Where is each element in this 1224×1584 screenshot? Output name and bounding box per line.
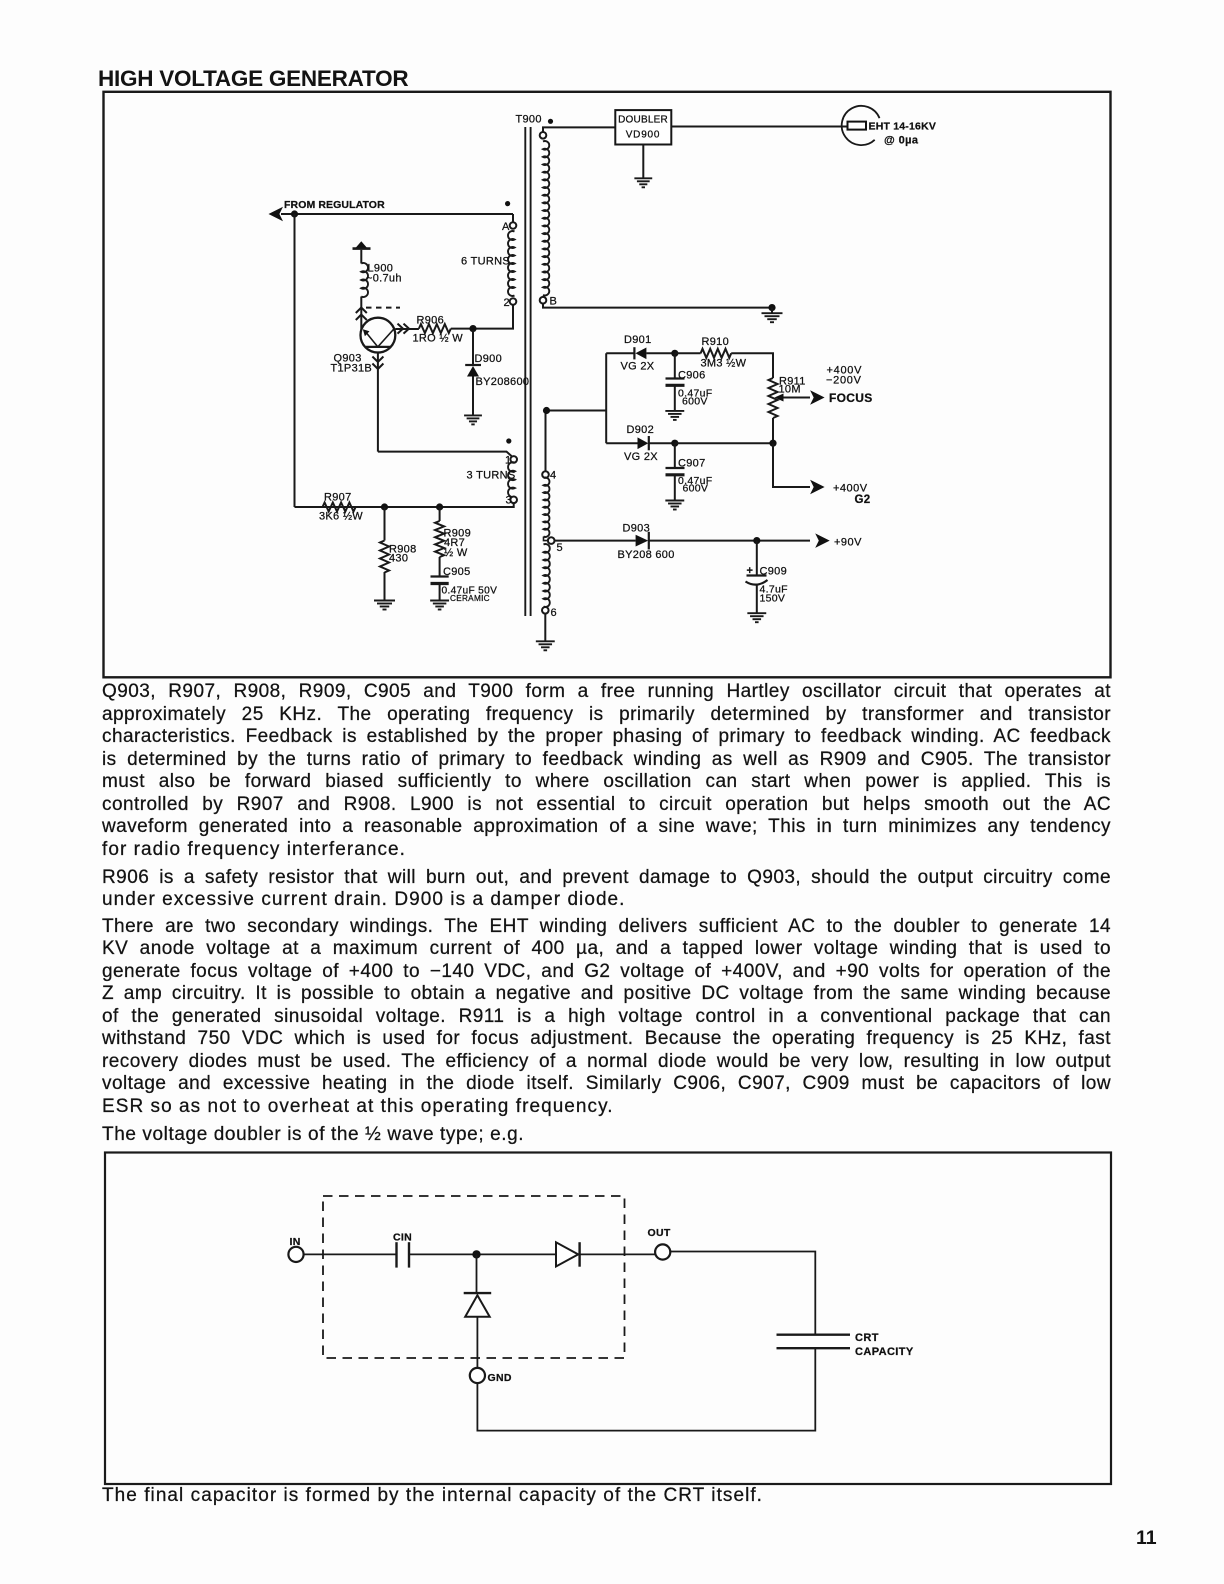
dashed module outline [323,1196,625,1358]
svg-text:D900: D900 [475,353,503,365]
svg-text:C909: C909 [760,566,788,578]
svg-text:VD900: VD900 [626,130,661,141]
wire doubler to EHT terminal [671,126,848,128]
junction dot tap4 rail [543,407,550,414]
transformer T900 core [524,127,526,616]
feedback chevrons up [356,308,367,314]
diode D901 [633,347,635,359]
potentiometer R911 [769,378,778,418]
svg-text:+90V: +90V [834,537,862,549]
svg-text:T900: T900 [516,114,542,126]
wire diode to OUT [580,1253,656,1255]
svg-text:CAPACITY: CAPACITY [855,1346,914,1358]
inductor L900 [361,263,368,297]
svg-text:3 TURNS: 3 TURNS [467,470,516,482]
wire D902 node to R911 bottom [675,442,773,444]
lower secondary winding upper half [544,478,550,537]
ground below doubler [642,145,644,179]
capacitor CIN [395,1242,397,1267]
wire D901 node to R910 [675,352,701,354]
svg-text:+400V: +400V [833,483,868,495]
wire T900 top to doubler [543,127,615,132]
svg-text:DOUBLER: DOUBLER [618,114,668,125]
capacitor C905 [431,575,449,577]
EHT secondary winding [540,132,547,139]
svg-text:½ W: ½ W [444,547,468,559]
capacitor C909 electrolytic [756,541,758,575]
svg-text:430: 430 [389,553,408,565]
ground below terminal 6 [536,640,555,642]
junction dot D901-C906 [671,350,678,357]
wire to D902 [606,442,637,444]
terminal GND [470,1368,485,1383]
terminal A [510,222,517,229]
wire D903 to +90V [649,540,810,542]
junction dot regulator [291,210,298,217]
junction dot D902-C907 [671,440,678,447]
lower secondary winding lower half [544,544,550,607]
resistor R908 [384,507,386,541]
emitter wire down [377,353,379,452]
ground below D900 [464,414,482,416]
junction dot C909 [753,537,760,544]
terminal 4 [542,471,549,478]
svg-text:CRT: CRT [855,1332,879,1344]
capacitor C907 [674,443,676,468]
transistor Q903 [361,318,396,353]
svg-text:150V: 150V [760,593,786,605]
wire regulator rail [281,213,513,215]
junction dot R909 [436,503,443,510]
diode rail vertical [605,353,607,443]
resistor R909 [439,507,441,521]
svg-text:6 TURNS: 6 TURNS [461,256,510,268]
svg-text:C906: C906 [678,370,706,382]
wire chassis to L900 [360,250,362,264]
svg-text:VG 2X: VG 2X [624,451,658,463]
polarity dot EHT winding [548,119,553,124]
junction dot R906-D900 [469,325,476,332]
svg-text:D902: D902 [627,424,655,436]
svg-text:GND: GND [488,1372,512,1384]
resistor R906 [419,324,451,333]
capacitor C906 [674,353,676,378]
svg-text:BY208600: BY208600 [476,376,530,388]
svg-text:FROM REGULATOR: FROM REGULATOR [284,199,385,211]
capacitor CRT capacity [777,1333,851,1335]
diode D903 [636,535,649,547]
polarity dot above A [505,201,510,206]
wire terminal 4 to diode rail [546,411,607,472]
svg-text:5: 5 [557,542,563,554]
wire CIN to node [409,1253,556,1255]
collector wire to R906 [395,328,419,330]
svg-text:600V: 600V [682,396,708,408]
terminal OUT [655,1244,670,1259]
terminal 5 [544,537,549,541]
terminal B [540,297,547,304]
svg-text:6: 6 [551,607,557,619]
svg-text:A: A [502,221,510,233]
svg-text:600V: 600V [683,483,709,495]
wire terminal B to ground [543,304,772,308]
series diode [556,1242,578,1266]
emitter chevrons down [372,357,383,363]
svg-text:BY208 600: BY208 600 [618,549,675,561]
svg-text:1RO ½ W: 1RO ½ W [413,333,464,345]
wire emitter to terminal 1 [378,452,512,457]
svg-text:R906: R906 [417,315,445,327]
schematic frame (high voltage generator) [104,92,1111,678]
ground below C906 [665,410,684,412]
arrow from regulator [269,207,284,222]
svg-text:FOCUS: FOCUS [829,391,873,405]
svg-text:OUT: OUT [648,1227,671,1239]
wire R910 to R911 [731,353,773,378]
feedback winding 3 turns [508,462,515,497]
svg-text:@ 0µa: @ 0µa [884,135,919,147]
wire IN to CIN [304,1253,397,1255]
wire rail to terminal A [512,214,514,222]
svg-text:~0.7uh: ~0.7uh [366,273,402,285]
wire shunt diode to GND [476,1317,478,1368]
wire regulator down to R907 [294,214,296,507]
svg-text:C907: C907 [678,458,706,470]
svg-text:R910: R910 [702,336,730,348]
svg-text:2: 2 [504,297,510,309]
arrow +90V output [815,533,830,548]
svg-text:3M3 ½W: 3M3 ½W [701,358,747,370]
svg-text:4: 4 [550,470,556,482]
dashed adjust line [366,307,400,309]
wire terminal 6 to ground [544,614,546,642]
ground below C907 [665,500,684,502]
wire terminal 3 to R907 rail [295,503,514,507]
svg-text:3: 3 [506,495,512,507]
wiper arrow FOCUS [775,394,784,402]
wire OUT to CRT capacitor [670,1252,815,1335]
junction dot R908 [381,503,388,510]
resistor R910 [701,349,732,358]
terminal IN [288,1247,303,1262]
svg-text:VG 2X: VG 2X [621,361,655,373]
ground below C909 [747,612,766,614]
svg-text:−200V: −200V [826,375,862,387]
svg-text:G2: G2 [855,494,871,506]
svg-text:D903: D903 [623,523,651,535]
wire L900 to transistor [360,297,362,331]
junction dot doubler [472,1250,480,1258]
junction dot R911 bottom [769,440,776,447]
wire GND return [477,1349,815,1431]
svg-text:10M: 10M [779,384,801,396]
wire terminal 2 to R906 node [479,305,513,329]
polarity dot above 1 [506,438,511,443]
ground below C905 [430,600,449,602]
arrow G2 output [810,480,825,495]
wire to D901 [606,352,634,354]
svg-text:R907: R907 [324,492,352,504]
wire R906 to node [451,328,479,330]
ground at B wire [771,308,773,314]
svg-text:C905: C905 [443,566,471,578]
EHT output terminal [842,106,880,145]
chassis symbol above L900 [353,247,371,250]
terminal 3 [510,497,517,504]
resistor R907 [323,503,356,512]
collector chevrons right [398,324,404,334]
svg-text:EHT 14-16KV: EHT 14-16KV [869,121,937,133]
diode D902 [638,437,649,449]
doubler VD900 box [615,110,671,144]
svg-text:IN: IN [290,1236,301,1248]
wire to G2 output [773,443,810,487]
ground below R908 [374,600,395,602]
terminal 1 [510,456,517,463]
primary winding 6 turns [508,231,514,296]
junction dot B-ground [768,304,775,311]
wire terminal 5 to D903 [555,540,636,542]
svg-text:+: + [747,565,754,577]
diode D900 [472,330,474,365]
svg-text:B: B [550,296,558,308]
svg-text:D901: D901 [624,334,652,346]
svg-text:3K6 ½W: 3K6 ½W [319,511,363,523]
doubler example frame [105,1153,1111,1485]
svg-text:CERAMIC: CERAMIC [450,594,490,603]
terminal 2 [510,298,517,305]
svg-text:CIN: CIN [393,1232,412,1244]
terminal 6 [542,607,549,614]
shunt diode [476,1254,478,1293]
svg-text:T1P31B: T1P31B [331,363,373,375]
